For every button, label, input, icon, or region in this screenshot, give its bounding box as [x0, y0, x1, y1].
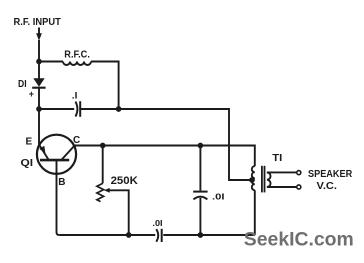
- svg-text:C: C: [73, 135, 80, 146]
- svg-text:E: E: [26, 137, 33, 148]
- svg-text:SPEAKER: SPEAKER: [308, 169, 353, 180]
- svg-text:250K: 250K: [111, 175, 138, 187]
- svg-text:B: B: [58, 177, 65, 188]
- svg-text:.0I: .0I: [212, 191, 225, 201]
- svg-text:.0I: .0I: [152, 218, 162, 228]
- svg-text:V.C.: V.C.: [317, 181, 338, 192]
- svg-text:R.F. INPUT: R.F. INPUT: [14, 17, 61, 28]
- svg-text:TI: TI: [272, 153, 282, 164]
- svg-text:DI: DI: [18, 79, 27, 90]
- svg-text:R.F.C.: R.F.C.: [64, 50, 90, 61]
- svg-text:+: +: [29, 89, 34, 99]
- svg-text:.I: .I: [72, 91, 78, 101]
- svg-text:QI: QI: [21, 158, 34, 169]
- svg-text:SeekIC.com: SeekIC.com: [244, 229, 354, 251]
